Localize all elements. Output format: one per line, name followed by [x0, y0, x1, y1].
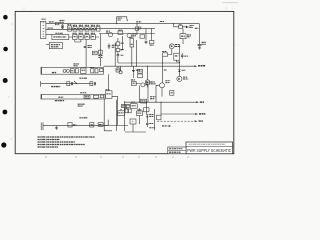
resistor R11 — [116, 66, 120, 72]
regulator VR7 — [130, 37, 134, 47]
resistor R13 — [137, 27, 144, 38]
relay K1 — [81, 68, 86, 73]
resistor R18 — [150, 41, 154, 46]
net RET — [162, 125, 171, 127]
resistor R8 — [75, 69, 78, 73]
breaker CB1 — [117, 17, 128, 24]
capacitor C1 — [60, 20, 65, 27]
wire Q3 links — [136, 70, 167, 102]
title main text — [187, 148, 231, 153]
relay K2 — [105, 90, 112, 99]
inductor L2 — [174, 53, 180, 60]
capacitor C13 — [90, 123, 94, 127]
net +5V — [196, 101, 204, 103]
switch S2 — [74, 81, 77, 84]
notes line 2 — [38, 139, 61, 141]
title scale text — [169, 151, 181, 153]
resistor R16 — [98, 123, 103, 127]
wire row2 drops — [75, 40, 81, 43]
label E10 — [160, 21, 164, 23]
transistor Q6 — [106, 31, 113, 37]
lamp DS1 — [63, 69, 66, 72]
lamp DS2 — [66, 69, 69, 72]
capacitor C14 — [137, 110, 143, 116]
wire mid verticals top — [137, 24, 152, 41]
capacitor C21 — [117, 55, 124, 56]
node E2 — [116, 23, 117, 24]
capacitor C20 — [145, 41, 148, 44]
capacitor C7 — [108, 44, 117, 50]
wire L3 out — [182, 39, 184, 44]
resistor R7 — [70, 69, 74, 73]
resistor R28 — [149, 127, 154, 129]
capacitor C30 — [118, 109, 125, 115]
ground at C1 — [61, 28, 64, 29]
svg-text:PWR SUPPLY SCHEMATIC: PWR SUPPLY SCHEMATIC — [187, 148, 231, 153]
wire aux 24V feed — [118, 62, 179, 63]
net +24V — [194, 65, 205, 67]
transformer T1 — [67, 25, 71, 31]
transistor Q3 — [160, 81, 171, 88]
diode CR7 — [178, 66, 185, 77]
node R2 — [136, 23, 137, 24]
lamp DS3 — [119, 66, 122, 74]
capacitor C18 — [130, 119, 136, 124]
regulator VR2 — [91, 33, 96, 39]
wire mid verticals — [104, 99, 124, 131]
transistor Q7 — [127, 33, 137, 37]
diode CR6 — [179, 24, 194, 28]
inductor L3 — [180, 34, 191, 39]
capacitor C16 — [198, 24, 206, 48]
resistor R17 — [135, 27, 139, 30]
regulator VR4 — [131, 102, 138, 108]
title block frame — [168, 142, 233, 154]
rectifier CR3 — [73, 33, 78, 39]
label 115VAC — [48, 27, 54, 29]
svg-text:+: + — [132, 120, 134, 124]
transformer T3 — [131, 80, 136, 86]
fuse F1 — [49, 22, 59, 25]
net -12V — [157, 120, 203, 122]
capacitor C10 — [67, 82, 73, 86]
resistor R22 — [162, 52, 167, 57]
diode CR5 — [132, 66, 140, 78]
node Q4 out — [179, 62, 180, 63]
wire bus2 mid — [97, 28, 156, 30]
label R2 — [136, 21, 141, 23]
regulator VR5 — [141, 97, 156, 112]
wire J1 to FL1 — [46, 44, 49, 46]
label E11 — [195, 27, 199, 29]
title number text — [169, 148, 183, 150]
rectifier bridge CR9 — [118, 30, 123, 34]
ground at C16 — [198, 48, 201, 49]
line filter FL1 — [49, 43, 62, 49]
wire row1 links — [71, 28, 96, 30]
label F2 — [80, 92, 86, 94]
capacitor C5 — [85, 33, 90, 39]
capacitor C4 — [96, 25, 100, 31]
node bus junctions — [131, 66, 148, 67]
resistor R4 — [92, 51, 97, 55]
label row C aux — [78, 104, 85, 106]
wire AC neutral — [46, 28, 97, 30]
capacitor C9 — [95, 69, 98, 73]
wire VR7 drop — [132, 40, 137, 66]
capacitor C2 — [85, 25, 89, 31]
transformer T2pri — [52, 33, 69, 39]
resistor R9 — [100, 69, 103, 72]
wire drop A — [85, 40, 87, 68]
regulator VR6 — [157, 102, 161, 120]
resistor ladder R6 — [116, 42, 124, 52]
ground row D — [55, 126, 58, 130]
wire ladder drops — [118, 36, 123, 63]
capacitor C11 — [79, 78, 95, 86]
wire bus3 mid — [99, 33, 155, 35]
wire row C out — [109, 74, 118, 125]
wire AC hot rail — [46, 23, 200, 25]
label K1 — [74, 64, 80, 66]
wire row2 links — [69, 36, 99, 38]
capacitor C15 — [181, 53, 188, 59]
capacitor C8 — [90, 68, 94, 73]
connector J2 — [41, 122, 43, 130]
fuse F2 — [84, 95, 90, 98]
capacitor C12 — [68, 123, 76, 127]
transistor Q1 — [145, 80, 156, 85]
net +12V — [161, 113, 205, 115]
enclosure row C — [41, 94, 105, 101]
transistor Q2 — [141, 82, 152, 87]
notes line 5 — [38, 146, 59, 148]
resistor R24 — [170, 91, 174, 96]
transistor Q4 — [169, 44, 180, 49]
node E10 — [173, 23, 174, 24]
resistor R14 — [100, 95, 103, 98]
rectifier CR2 — [79, 25, 83, 31]
wire Q4 network — [163, 44, 180, 83]
wire E10 drop — [173, 24, 175, 27]
title company text — [189, 143, 226, 145]
wire AC line3 — [46, 34, 52, 36]
notes line 1 — [38, 136, 96, 138]
resistor R5 — [98, 50, 103, 57]
diode CR8 — [146, 114, 154, 117]
wire drop B — [99, 34, 101, 67]
connector J1 — [40, 19, 46, 38]
wire regulator drops — [125, 102, 155, 132]
resistor R12 — [138, 69, 143, 77]
notes line 4 — [38, 144, 86, 146]
label L1 — [79, 117, 87, 119]
capacitor C6 — [84, 46, 93, 48]
transistor Q5 — [177, 76, 188, 81]
wire +24V bus — [104, 65, 195, 67]
regulator VR1 — [91, 25, 95, 31]
capacitor C19 — [146, 117, 153, 127]
wire drop C — [114, 43, 116, 66]
wire row D — [43, 125, 108, 127]
wire row B — [41, 81, 93, 87]
enclosure row A — [41, 67, 104, 75]
rectifier CR4 — [79, 33, 84, 39]
wire mid horizontals — [104, 126, 128, 131]
resistor R26 — [125, 108, 131, 113]
notes line 3 — [38, 141, 76, 143]
rectifier CR1 — [73, 25, 77, 31]
wire CR6 links — [174, 27, 191, 34]
switch S1 — [94, 95, 99, 98]
wire regulator rail — [125, 102, 198, 105]
regulator VR3 — [121, 104, 129, 107]
wire Q1 links — [147, 66, 149, 87]
